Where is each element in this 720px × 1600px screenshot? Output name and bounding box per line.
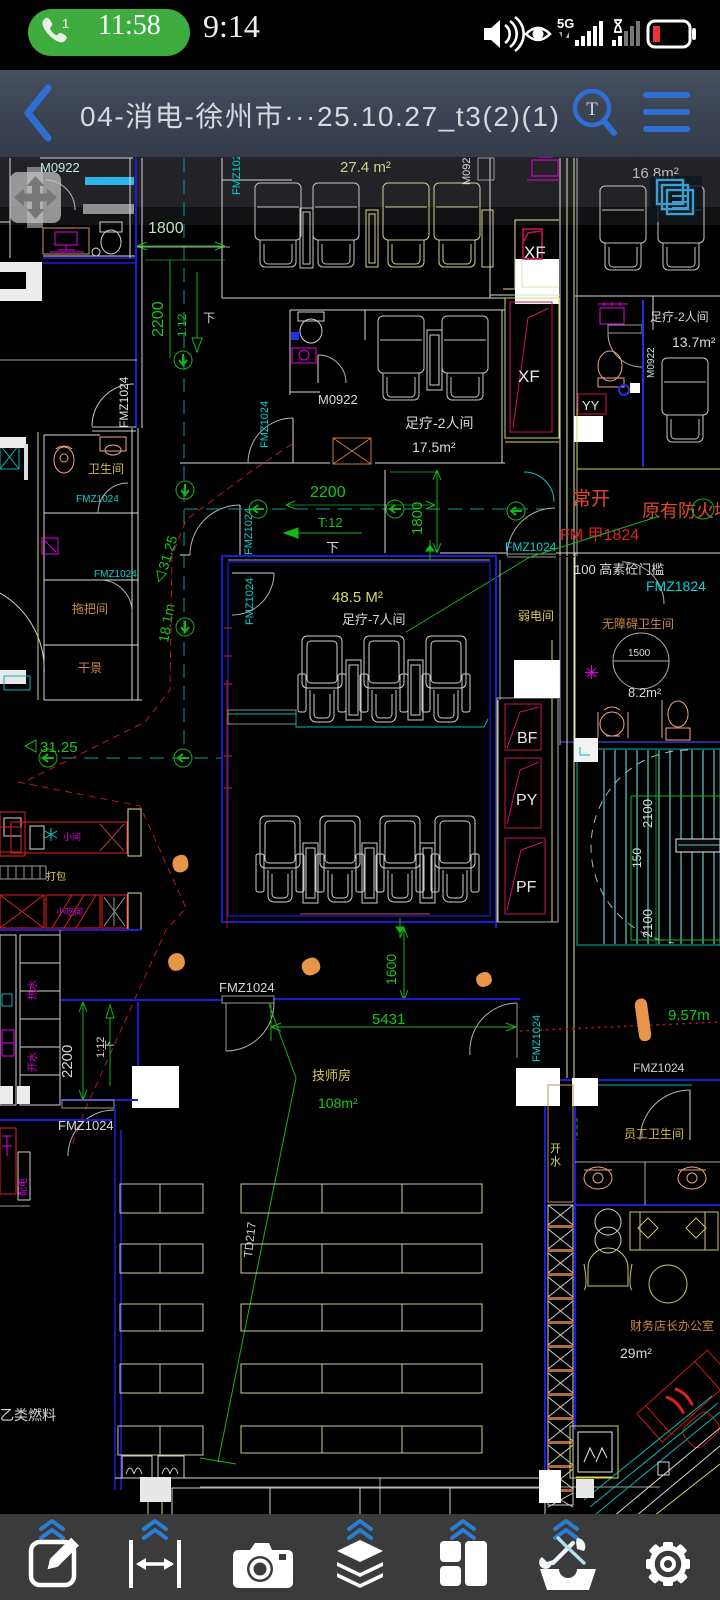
toilet top-left (100, 222, 122, 254)
cream wall bar right of row2 (128, 893, 141, 930)
office chair 2 round (649, 1265, 687, 1303)
svg-text:拖把间: 拖把间 (72, 602, 108, 616)
side table A3 (482, 210, 493, 267)
wall WC right (364, 310, 366, 340)
massage chair C2 (658, 186, 704, 270)
wall left col (44, 428, 142, 700)
svg-text:BF: BF (517, 730, 538, 747)
wall top-left room (40, 157, 133, 159)
wall joints bottom (380, 1478, 545, 1516)
green circle annotation (692, 499, 714, 519)
wall left vertical (9, 158, 11, 258)
bed L4 (120, 1364, 203, 1393)
svg-text:足疗-2人间: 足疗-2人间 (405, 415, 473, 431)
svg-text:无障碍卫生间: 无障碍卫生间 (602, 616, 674, 631)
massage chair E2 (360, 636, 408, 722)
svg-text:1: 1 (62, 16, 69, 31)
green dim line stairs (655, 750, 657, 944)
door arc big room (232, 573, 274, 615)
svg-text:9.57m: 9.57m (668, 1007, 710, 1024)
bottom toolbar (0, 1514, 720, 1600)
door arc 17.5 (248, 418, 293, 463)
magenta marks (2, 1136, 12, 1156)
camera icon (233, 1543, 293, 1588)
gray shelf bar (83, 204, 134, 214)
green tick top wall (426, 540, 434, 560)
layers icon (337, 1540, 383, 1588)
svg-text:开水: 开水 (27, 1052, 39, 1072)
white bar (18, 1152, 30, 1200)
stair treads cyan vertical (604, 750, 714, 944)
door arc left wall (92, 384, 134, 426)
side table E1 (346, 660, 361, 720)
battery (648, 21, 696, 47)
toilet left col (54, 446, 74, 473)
red panel (0, 1128, 16, 1194)
bed L2 (120, 1244, 203, 1273)
bed R1 (241, 1184, 482, 1213)
door sill top (222, 996, 274, 1003)
massage chair F3 (376, 816, 424, 902)
corridor left wall segment (384, 470, 386, 553)
XF upper crimson box (523, 229, 542, 259)
wall below desk (43, 255, 136, 257)
massage chair A1 (255, 183, 301, 267)
door arc corridor cyan (524, 472, 554, 502)
WC right: toilet (598, 351, 624, 387)
white boxes left edge (0, 1086, 13, 1104)
second signal (612, 21, 640, 46)
drain circle 3 (249, 500, 267, 518)
dim 2200 vertical top (145, 260, 225, 358)
cyan X box upper left (0, 445, 19, 469)
dim 1800 corridor vertical (390, 470, 441, 553)
call pill (28, 9, 190, 56)
white box left (132, 1066, 179, 1108)
bed R3 (241, 1304, 482, 1331)
bed R5 (241, 1426, 482, 1453)
screenshot light band below navbar (0, 157, 720, 207)
svg-text:开: 开 (550, 1143, 561, 1155)
magenta fixtures top (527, 150, 560, 180)
bed L1 (120, 1184, 203, 1213)
red box row2 left (0, 895, 44, 928)
svg-text:5G: 5G (557, 16, 574, 31)
door arc right (622, 562, 664, 604)
stair dashed arc (591, 750, 688, 943)
side table F2 (362, 843, 377, 903)
side table E2 (408, 660, 423, 720)
shaft outer frame (497, 698, 558, 922)
wall WC bottom (290, 391, 320, 393)
svg-text:XF: XF (518, 367, 540, 386)
cream wall bar right of row1 (128, 809, 141, 856)
hatch box door sill (333, 438, 371, 464)
bed R2 (241, 1244, 482, 1273)
blue tag (291, 332, 299, 340)
bed L5 (118, 1426, 203, 1455)
blue stub wall (0, 1119, 112, 1121)
yellow drop lines (148, 1478, 162, 1514)
XF lower crimson box (510, 302, 552, 432)
toilet acc (662, 700, 690, 740)
toilet emp 1 (584, 1167, 612, 1189)
desk with computer (43, 228, 89, 254)
door sill left (62, 1100, 114, 1108)
door leaf (292, 418, 294, 463)
svg-text:13.7m²: 13.7m² (672, 334, 716, 350)
massage chair D1 (662, 358, 708, 442)
svg-text:31.25: 31.25 (40, 739, 78, 756)
drain circle 6 (176, 618, 194, 636)
PY crimson box (505, 758, 541, 828)
YY yellow frame (570, 1426, 618, 1478)
svg-text:FMZ1024: FMZ1024 (117, 376, 131, 428)
wall bottom right part (375, 462, 505, 464)
orange line bottom wall (300, 913, 430, 915)
wall left (574, 553, 576, 742)
door right top (470, 1003, 517, 1058)
red dotted line 9.57 (520, 1022, 720, 1031)
dim 1600 vertical (400, 928, 408, 1000)
side table A (300, 208, 313, 268)
drain circle 7 (39, 749, 57, 767)
WC right: sink magenta (598, 302, 628, 324)
wall segment (180, 554, 190, 556)
BF crimson box (505, 704, 541, 750)
centerline dashed vertical (183, 158, 185, 750)
yellow shaft frame lower (505, 298, 559, 442)
office chair 1 (584, 1248, 632, 1290)
gray cabinet left (228, 710, 296, 724)
status bar (0, 0, 720, 70)
svg-text:M0922: M0922 (646, 347, 657, 378)
svg-text:FMZ1024: FMZ1024 (505, 540, 557, 554)
cyan box left (4, 676, 30, 690)
red ticks on left wall (224, 628, 232, 788)
svg-text:1800: 1800 (148, 220, 184, 237)
cyan corner mark (580, 747, 590, 755)
svg-text:财务店长办公室: 财务店长办公室 (630, 1318, 714, 1333)
bed L3 (120, 1304, 203, 1331)
cyan bits (2, 994, 12, 1006)
svg-text:打包: 打包 (46, 870, 66, 883)
stair rail landing (676, 839, 720, 852)
door arc WC (318, 355, 346, 383)
blue wall corridor right (545, 1078, 720, 1490)
hourglass (614, 20, 622, 32)
svg-text:足疗-7人间: 足疗-7人间 (342, 612, 406, 627)
svg-text:FMZ1024: FMZ1024 (219, 980, 275, 995)
magenta marker (585, 665, 598, 679)
YY grille box (578, 1432, 612, 1472)
blue pipe vertical right (642, 300, 644, 467)
dim 2200 left vertical (79, 1002, 87, 1100)
white block small (0, 437, 26, 448)
blue wall under zone (0, 929, 142, 931)
wall left low vertical (59, 930, 61, 1100)
svg-text:小间: 小间 (63, 831, 81, 842)
PF crimson box (505, 838, 545, 914)
svg-text:YY: YY (582, 398, 600, 413)
svg-text:2100: 2100 (640, 799, 655, 828)
edit icon (31, 1538, 79, 1585)
svg-text:乙类燃料: 乙类燃料 (0, 1407, 56, 1423)
svg-text:FMZ1024: FMZ1024 (531, 1015, 543, 1062)
door arc left low (68, 1110, 114, 1156)
drain circle 1 (174, 351, 192, 369)
wall bottom (575, 741, 720, 743)
door leaf (225, 1003, 227, 1051)
svg-text:下: 下 (326, 540, 339, 555)
svg-text:27.4 m²: 27.4 m² (340, 159, 391, 176)
green diagonal line (218, 1004, 296, 1462)
blue wall right of big room (495, 557, 497, 928)
dark wall above stairs (560, 741, 720, 743)
svg-text:XF: XF (524, 243, 546, 262)
corridor wall w1 (559, 158, 561, 556)
cyan pipe right (560, 1084, 692, 1086)
office stools (595, 1209, 621, 1253)
long red counter (0, 822, 127, 853)
wall fragment left (0, 359, 137, 361)
bottom wall lower (200, 1486, 660, 1488)
corridor wall w4 (576, 158, 578, 556)
massage chair F1 (256, 816, 304, 902)
corridor wall w3 (573, 158, 575, 556)
yellow line under YY (576, 1476, 612, 1478)
yellow frame lines (498, 640, 552, 922)
svg-text:PF: PF (516, 879, 537, 896)
green tick bottom wall (396, 918, 404, 938)
hatch grille box 2 (158, 1456, 184, 1478)
wall right rooms divider (575, 295, 720, 297)
white box stairs corner (574, 738, 598, 762)
svg-text:17.5m²: 17.5m² (412, 439, 456, 455)
drain circle 2 (176, 481, 194, 499)
cyan pipe across room (228, 714, 488, 727)
gear icon (646, 1542, 690, 1586)
svg-text:2200: 2200 (310, 484, 346, 501)
massage chair E1 (298, 636, 346, 722)
svg-text:热水: 热水 (26, 980, 39, 1000)
svg-text:FMZ1024: FMZ1024 (94, 569, 137, 580)
cyan snowflake (45, 828, 57, 841)
slope 31.25 rotated (151, 533, 180, 584)
wall left of room (221, 158, 223, 298)
white wall line top (228, 559, 490, 561)
pan cross UI control (10, 167, 61, 228)
svg-text:150: 150 (630, 848, 644, 868)
WC right: valve (619, 385, 629, 395)
svg-text:FMZ1024: FMZ1024 (76, 494, 119, 505)
green dashes pipe (576, 1118, 578, 1140)
navigation bar (0, 70, 720, 157)
massage chair A3 (383, 183, 429, 267)
door sill left wall (92, 427, 136, 431)
door sill FMZ1024 (507, 554, 556, 557)
white box corridor A (516, 1068, 560, 1106)
slope 31.25 bottom left (25, 739, 78, 756)
side table F3 (420, 843, 435, 903)
5G + bars (557, 16, 603, 46)
ramp arrow left (284, 528, 362, 538)
green leader line (406, 516, 660, 632)
dim 5431 (271, 1003, 516, 1041)
door arc left 2 (100, 580, 132, 612)
yellow wall line (37, 432, 39, 700)
svg-text:技师房: 技师房 (312, 1068, 351, 1083)
white box bottom right A (539, 1470, 561, 1503)
status icons right (480, 12, 700, 56)
YY box (578, 394, 606, 414)
svg-text:8.2m²: 8.2m² (628, 685, 662, 700)
layers floating button (650, 176, 702, 222)
toolbox icon (539, 1538, 596, 1590)
white block left (0, 670, 26, 684)
wall under corridor (440, 552, 507, 554)
office desk yellow (630, 1212, 718, 1250)
svg-text:29m²: 29m² (620, 1345, 652, 1361)
yellow shaft frame upper (503, 220, 559, 298)
fixture salmon (100, 437, 126, 455)
cyan stair frame (577, 749, 720, 945)
svg-text:100 高素砼门槛: 100 高素砼门槛 (574, 562, 664, 577)
door arc corridor white (507, 508, 555, 556)
wall right of door (556, 552, 720, 554)
sink circle (92, 248, 100, 256)
svg-text:48.5 M²: 48.5 M² (332, 589, 383, 606)
massage chair B2 (442, 316, 488, 400)
drain circle 5 (507, 502, 525, 520)
red dashed path B (18, 782, 186, 1145)
blue wall x138 door area (137, 1002, 139, 1066)
massage chair A2 (313, 183, 359, 267)
WC right: door (608, 325, 642, 367)
svg-text:足疗-2人间: 足疗-2人间 (650, 310, 709, 324)
white box below XF label (515, 259, 559, 304)
blue wall rect outer (222, 556, 496, 922)
eye (526, 28, 550, 40)
svg-text:5431: 5431 (372, 1011, 405, 1028)
wall bottom of 17.5 room (180, 462, 330, 464)
side table B (427, 330, 442, 390)
svg-text:FMZ1024: FMZ1024 (633, 1061, 685, 1075)
massage chair F2 (316, 816, 364, 902)
white wall vertical x130 top-left (129, 158, 131, 258)
red hatch box row2 mid (46, 895, 100, 928)
drain circle 8 (174, 749, 192, 767)
gray stub (0, 1205, 30, 1207)
svg-text:常开: 常开 (572, 488, 610, 510)
svg-text:FMZ1024: FMZ1024 (244, 578, 256, 625)
tiles icon (440, 1541, 487, 1586)
wall top of 17.5 room (290, 309, 505, 311)
svg-text:水: 水 (550, 1155, 561, 1168)
bottom locker row (172, 1488, 545, 1516)
svg-text:1600: 1600 (383, 954, 399, 985)
big door arc left edge (0, 593, 44, 675)
wall right of room (489, 158, 491, 298)
magenta door mark (42, 538, 58, 554)
svg-text:FMZ1824: FMZ1824 (646, 578, 706, 594)
bed R4 (241, 1364, 482, 1393)
ramp arrow up left (106, 1005, 114, 1086)
red box far left (0, 812, 25, 856)
svg-text:M0922: M0922 (318, 392, 358, 407)
svg-text:2200: 2200 (150, 301, 167, 337)
massage chair F4 (431, 816, 479, 902)
wall bottom of room (222, 297, 512, 299)
massage chair B1 (378, 316, 424, 400)
blue wall lower jog (60, 1099, 138, 1101)
svg-text:员工卫生间: 员工卫生间 (624, 1127, 684, 1141)
svg-text:小吃间: 小吃间 (56, 906, 83, 917)
blue wall vertical x136 (135, 158, 137, 428)
side table A2 (366, 210, 378, 267)
sink magenta WC (292, 348, 316, 363)
door arc top-left (45, 180, 75, 210)
wall (0, 221, 10, 223)
white wall right pair (499, 560, 501, 700)
door leaf (239, 505, 241, 555)
svg-text:FMZ102: FMZ102 (231, 154, 243, 195)
measure icon (131, 1540, 179, 1588)
svg-text:T: T (586, 99, 598, 120)
white box corridor B (572, 1078, 598, 1106)
corridor extension lines (560, 557, 574, 1078)
turning circle (613, 633, 669, 689)
red dashed path A (28, 444, 292, 780)
yellow wall piece (577, 408, 720, 470)
small white box (630, 383, 640, 393)
wall emp wc (575, 1162, 720, 1205)
door arc top (226, 1003, 274, 1051)
magenta fixture left edge (2, 1030, 14, 1056)
wheelchair symbol (598, 707, 628, 738)
massage chair C1 (600, 186, 646, 270)
wall right (501, 310, 503, 463)
svg-text:配电: 配电 (17, 1178, 28, 1196)
door arc WC employees (640, 1090, 690, 1140)
gray door top (478, 158, 494, 180)
white box under YY (574, 416, 603, 442)
bench rows gray (0, 866, 46, 879)
svg-text:2200: 2200 (59, 1045, 76, 1078)
wall over shaft (490, 294, 560, 296)
blue wall 技师房 left (115, 1108, 121, 1490)
drain circle 4 (386, 500, 404, 518)
door leaf big room (232, 572, 274, 574)
door leaf WC (317, 355, 319, 383)
svg-text:1:12: 1:12 (175, 313, 189, 337)
svg-text:FMZ1024: FMZ1024 (259, 401, 271, 448)
svg-text:T:12: T:12 (318, 515, 343, 530)
massage chair E3 (422, 636, 470, 722)
svg-text:干景: 干景 (78, 661, 102, 675)
white thick corner shape (0, 262, 42, 301)
red fan box row2 (102, 895, 127, 928)
blue wall top of 技师房 left part (60, 999, 222, 1001)
red rotated desk set (637, 1350, 720, 1464)
svg-text:FMZ1024: FMZ1024 (243, 508, 255, 555)
massage chair A4 (434, 183, 480, 267)
svg-text:1500: 1500 (628, 648, 651, 659)
wall top fragment (222, 179, 292, 181)
bottom wall 技师房 (115, 1477, 545, 1479)
red line left wall (226, 680, 228, 928)
white box bottom (140, 1477, 171, 1502)
